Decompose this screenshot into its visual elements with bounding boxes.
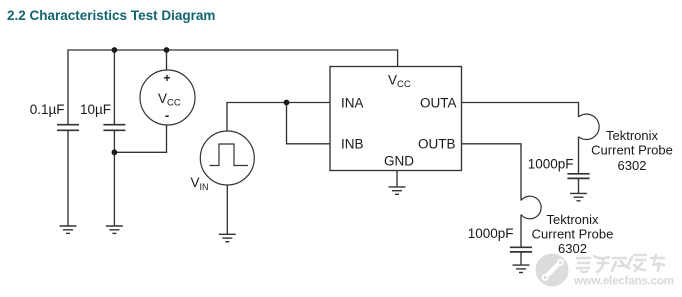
wire IC GND lead <box>396 171 398 187</box>
svg-text:1000pF: 1000pF <box>468 226 514 241</box>
wire top VCC rail <box>68 50 398 125</box>
wire C2 upper lead <box>113 50 115 125</box>
ground C3 <box>570 193 587 200</box>
ground C4 <box>513 265 530 272</box>
svg-text:Current Probe: Current Probe <box>532 226 614 241</box>
wire VIN upper lead <box>227 103 287 132</box>
ground C1 <box>60 226 77 233</box>
current probe B <box>521 196 541 219</box>
svg-text:GND: GND <box>384 154 414 169</box>
source VIN circle <box>200 131 254 185</box>
wire C4 lower lead <box>520 252 522 265</box>
junction dot rail/C2 <box>112 47 118 53</box>
svg-text:V: V <box>388 73 397 88</box>
svg-text:CC: CC <box>397 79 411 90</box>
wire OUTA <box>462 103 579 117</box>
svg-text:V: V <box>191 175 200 190</box>
wire VCC source upper lead <box>166 50 168 70</box>
svg-text:Tektronix: Tektronix <box>546 212 599 227</box>
svg-text:1000pF: 1000pF <box>528 156 574 171</box>
svg-text:V: V <box>158 91 167 106</box>
capacitor C2 10uF plates <box>103 125 125 131</box>
wire probe A to C3 <box>578 137 580 174</box>
svg-text:0.1µF: 0.1µF <box>30 102 65 117</box>
wire node to INB <box>287 103 331 144</box>
svg-text:+: + <box>163 71 170 85</box>
svg-text:Current Probe: Current Probe <box>591 143 673 158</box>
capacitor C4 1000pF plates <box>510 247 532 252</box>
capacitor C1 0.1uF plates <box>57 125 79 131</box>
wire C1 lower lead <box>67 130 69 226</box>
svg-text:OUTB: OUTB <box>418 136 456 151</box>
svg-text:2.2 Characteristics Test Diagr: 2.2 Characteristics Test Diagram <box>7 8 215 23</box>
svg-text:INB: INB <box>341 136 364 151</box>
watermark (decorative) <box>536 254 675 288</box>
ground C2 <box>106 226 123 233</box>
pulse symbol inside VIN <box>210 144 249 166</box>
ground IC <box>389 187 406 194</box>
wire OUTB <box>462 144 522 201</box>
ground VIN <box>219 234 236 241</box>
wire C2 lower lead <box>113 130 115 226</box>
svg-text:OUTA: OUTA <box>420 95 457 110</box>
svg-text:10µF: 10µF <box>80 102 111 117</box>
capacitor C3 1000pF plates <box>567 174 589 179</box>
wire VIN lower lead <box>226 185 228 234</box>
wire node to INA <box>287 102 331 104</box>
svg-text:Tektronix: Tektronix <box>606 128 659 143</box>
svg-text:6302: 6302 <box>558 241 587 256</box>
wire VCC source bottom to node <box>114 125 166 152</box>
svg-text:-: - <box>165 108 169 123</box>
current probe A <box>579 114 600 139</box>
wire C3 lower lead <box>578 178 580 193</box>
svg-text:INA: INA <box>341 95 364 110</box>
svg-text:6302: 6302 <box>618 158 647 173</box>
svg-text:www.elecfans.com: www.elecfans.com <box>573 276 674 288</box>
wire probe B to C4 <box>520 215 522 248</box>
IC U1 body <box>330 67 462 171</box>
junction dot VCC/C2 node <box>112 149 118 155</box>
source VCC circle <box>140 70 195 125</box>
junction dot rail/VCC <box>164 47 170 53</box>
junction dot VIN/INA/INB node <box>284 100 290 106</box>
svg-text:IN: IN <box>200 182 209 192</box>
